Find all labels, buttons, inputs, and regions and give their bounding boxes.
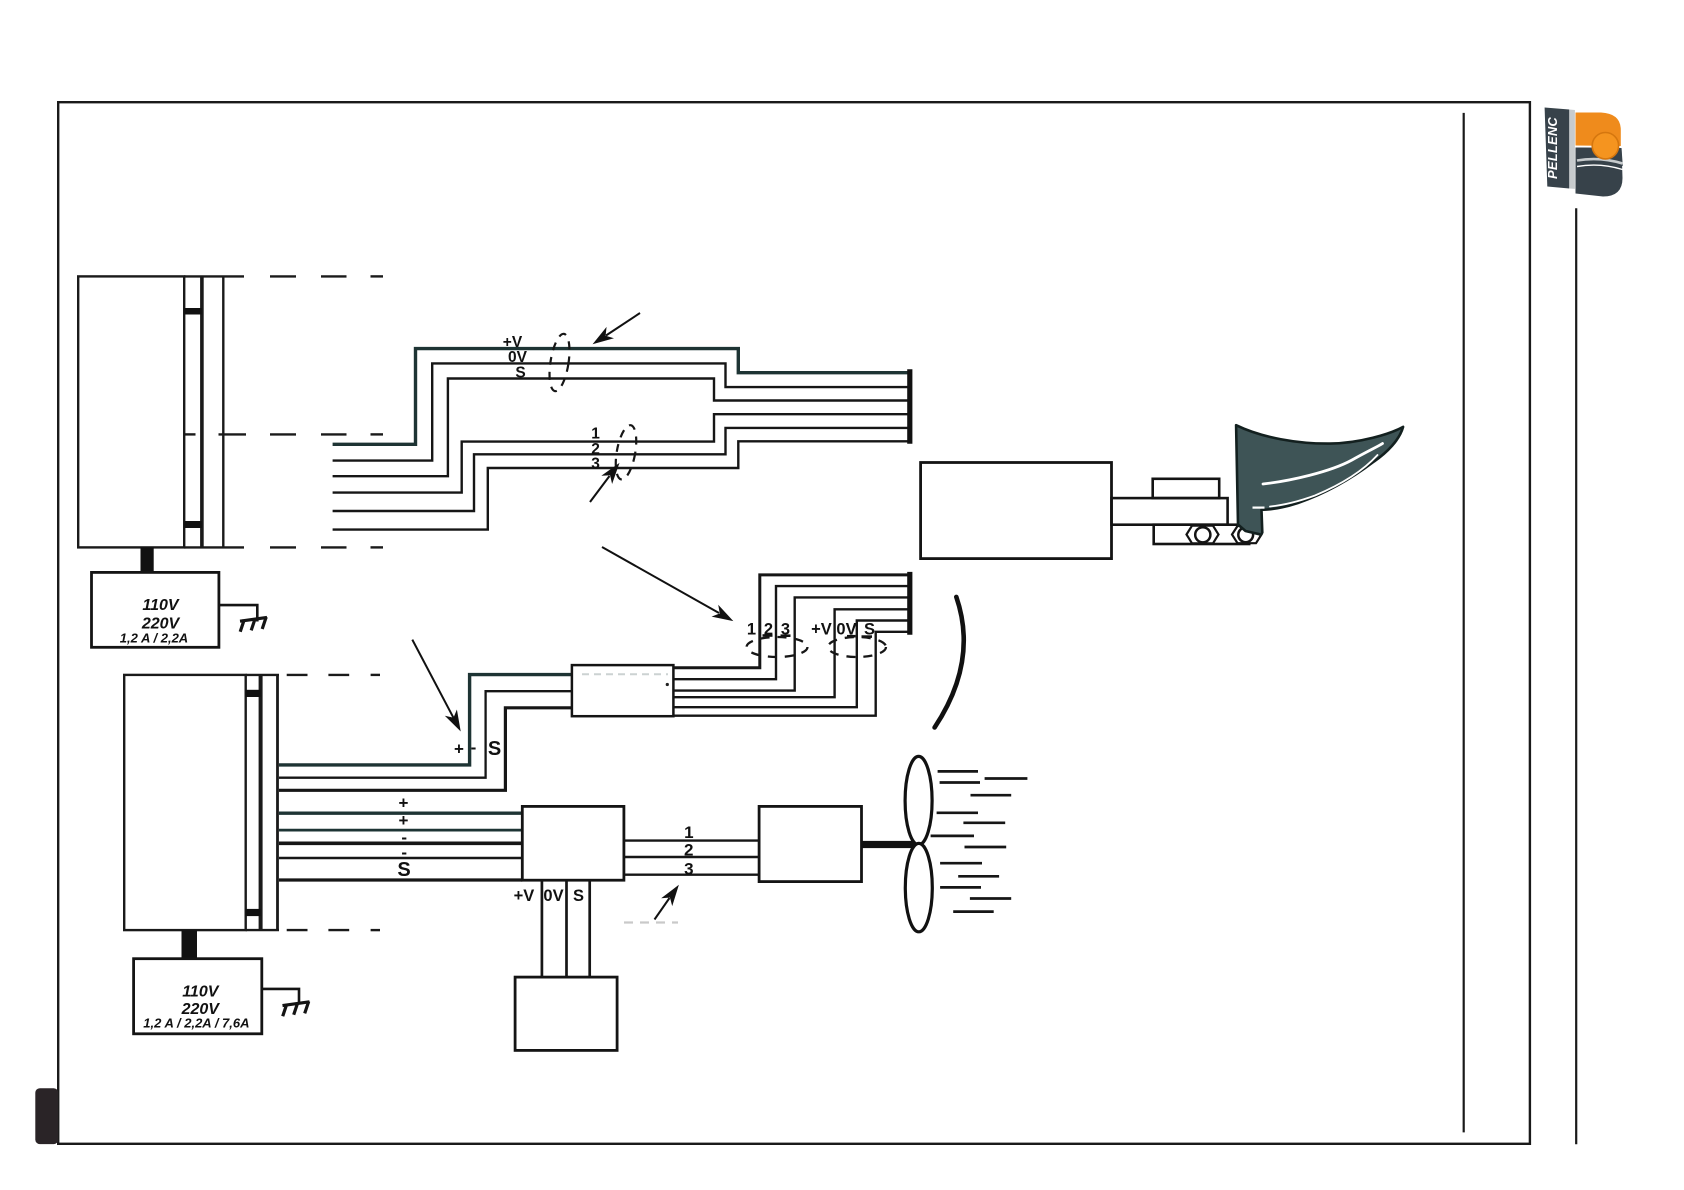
svg-text:3: 3	[684, 860, 693, 879]
svg-text:+: +	[399, 794, 409, 813]
svg-text:S: S	[515, 365, 525, 382]
svg-text:S: S	[573, 887, 584, 905]
svg-text:110V: 110V	[182, 984, 220, 1001]
svg-text:+: +	[454, 740, 464, 759]
svg-text:1,2 A / 2,2A / 7,6A: 1,2 A / 2,2A / 7,6A	[143, 1016, 249, 1031]
svg-text:1,2 A / 2,2A: 1,2 A / 2,2A	[120, 631, 188, 646]
svg-text:S: S	[397, 859, 410, 881]
svg-text:+V: +V	[811, 621, 832, 639]
svg-text:1: 1	[747, 621, 756, 639]
svg-text:PELLENC: PELLENC	[1545, 117, 1560, 179]
svg-text:110V: 110V	[142, 597, 180, 614]
svg-text:-: -	[471, 738, 477, 757]
svg-text:0V: 0V	[543, 887, 563, 905]
svg-text:2: 2	[684, 841, 693, 860]
svg-text:+V: +V	[514, 887, 535, 905]
svg-text:0V: 0V	[508, 349, 528, 366]
svg-text:S: S	[488, 738, 501, 760]
svg-text:1: 1	[684, 823, 693, 842]
svg-text:3: 3	[591, 456, 600, 473]
svg-text:1: 1	[591, 426, 600, 443]
